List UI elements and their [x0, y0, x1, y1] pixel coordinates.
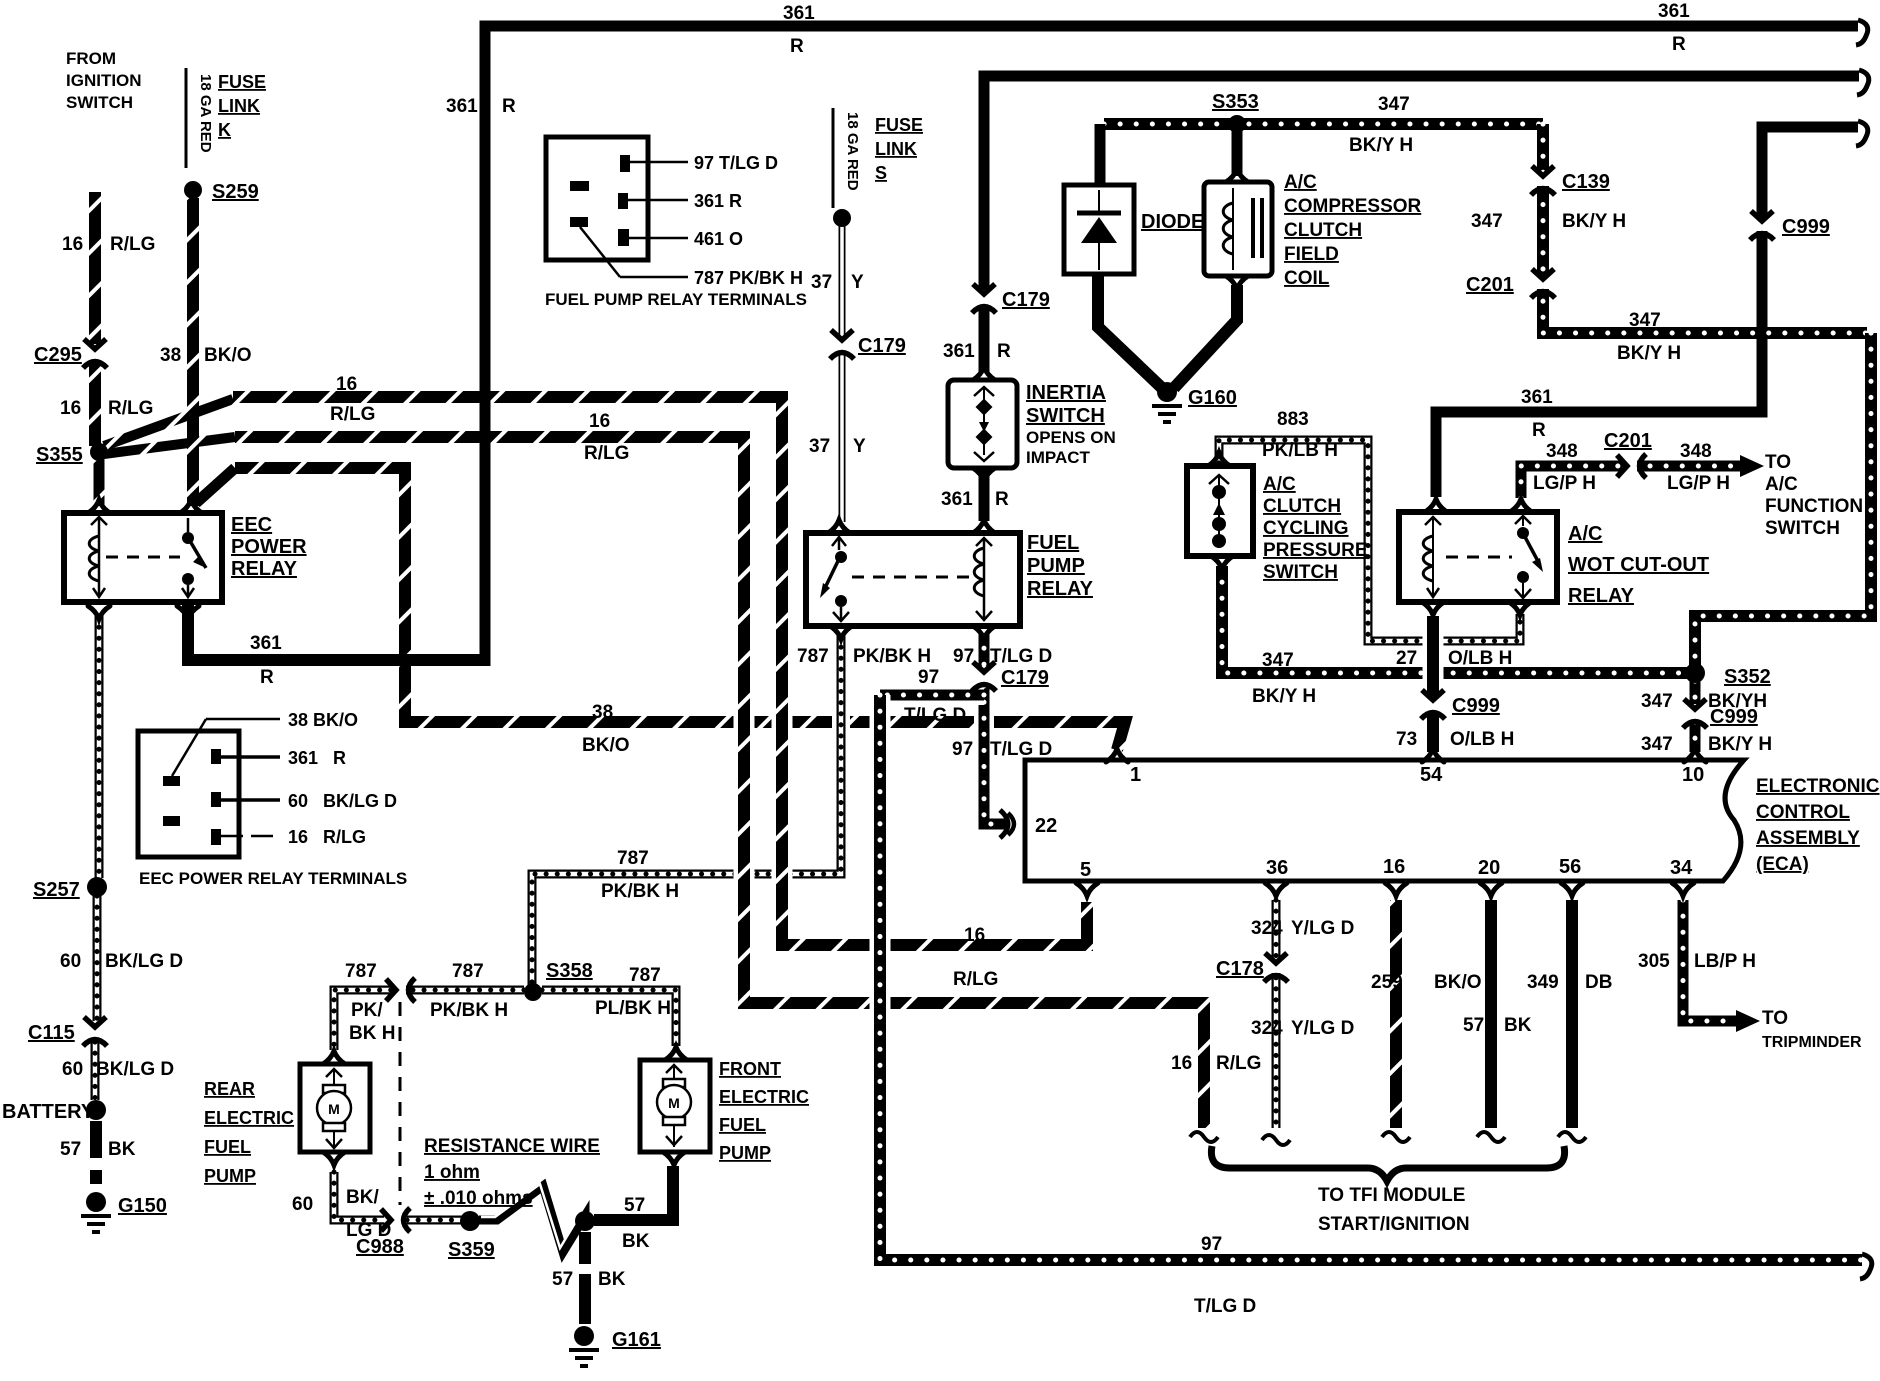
- label 787 s358 left: [345, 961, 377, 982]
- wire 361 R EEC relay pin down and right: [188, 604, 490, 660]
- EEC relay pin bottom-left chevron: [88, 606, 110, 619]
- svg-text:361: 361: [1521, 387, 1553, 408]
- svg-text:16: 16: [60, 398, 81, 419]
- label R eec: [260, 667, 274, 688]
- wire 883 PK/LB H pressure switch to WOT relay: [1219, 440, 1520, 641]
- label 347 c139: [1471, 211, 1503, 232]
- curl end of 361 R line 3: [1856, 121, 1868, 146]
- WOT relay switch: [1515, 516, 1543, 598]
- ECA pin 20 chevron: [1480, 883, 1502, 896]
- wire 57 BK junction down: [579, 1232, 591, 1264]
- label 361 eec: [250, 633, 282, 654]
- wire 60 BK/LG D C988 to S359: [407, 1216, 462, 1225]
- arrowhead to A/C function switch: [1740, 455, 1764, 477]
- svg-text:S259: S259: [212, 181, 259, 203]
- wire 305 LB/P H ECA pin 34 to tripminder: [1683, 900, 1736, 1021]
- svg-text:22: 22: [1035, 815, 1057, 837]
- label 57 front: [624, 1195, 645, 1216]
- EEC relay pin bottom-right chevron: [177, 606, 199, 619]
- label C295: [34, 344, 82, 366]
- svg-text:348: 348: [1546, 441, 1578, 462]
- svg-text:BK/YH: BK/YH: [1708, 691, 1767, 712]
- label FUEL PUMP RELAY: [1027, 532, 1094, 600]
- label 57 eca: [1463, 1015, 1484, 1036]
- ECA pin 10 chevron: [1684, 749, 1706, 762]
- WOT relay dashed link: [1446, 556, 1512, 559]
- svg-text:57: 57: [624, 1195, 645, 1216]
- ground G160: [1152, 382, 1237, 422]
- label 16 left2: [60, 398, 81, 419]
- label 1 ohm: [424, 1162, 480, 1183]
- svg-text:R: R: [260, 667, 274, 688]
- label 38: [160, 345, 181, 366]
- label 347 s347: [1262, 650, 1294, 671]
- terminal callout 461: [629, 237, 688, 240]
- label PK/BK H horiz: [601, 881, 679, 902]
- wire 361 R line 3 to A/C WOT cut-out relay: [1436, 127, 1858, 497]
- svg-text:18 GA RED: 18 GA RED: [844, 112, 861, 191]
- label 60 rear: [292, 1194, 313, 1215]
- label REAR ELECTRIC FUEL PUMP: [204, 1079, 294, 1186]
- svg-text:R: R: [1532, 420, 1546, 441]
- label 97 h: [918, 667, 939, 688]
- svg-text:1: 1: [1130, 764, 1141, 786]
- svg-text:IMPACT: IMPACT: [1026, 448, 1091, 467]
- svg-text:461 O: 461 O: [694, 229, 743, 249]
- wire 37 Y fuse link S to C179: [834, 226, 850, 336]
- svg-text:PK/: PK/: [351, 1000, 383, 1021]
- wire 16 R/LG from ignition switch: [89, 192, 101, 344]
- rear electric fuel pump box: [300, 1064, 370, 1152]
- label PK/BK H relay: [853, 646, 931, 667]
- wire diode to G160: [1098, 276, 1162, 388]
- connector C999 on 347: [1683, 699, 1707, 728]
- WOT relay bottom-left pin chevron: [1422, 602, 1444, 615]
- label R/LG eca5: [953, 969, 998, 990]
- label 97 below: [952, 739, 973, 760]
- svg-text:(ECA): (ECA): [1756, 854, 1809, 875]
- label ELECTRONIC CONTROL ASSEMBLY (ECA): [1756, 776, 1880, 875]
- svg-text:DIODE: DIODE: [1141, 211, 1204, 233]
- svg-text:CYCLING: CYCLING: [1263, 518, 1349, 539]
- wire 38 BK/O from EEC power relay to ECA pin 1: [235, 468, 1125, 750]
- connector C201 on 348: [1617, 454, 1646, 478]
- dashed line C988 alternate path: [399, 1002, 402, 1205]
- svg-text:305: 305: [1638, 951, 1670, 972]
- svg-text:C201: C201: [1466, 274, 1514, 296]
- label 18 GA RED left: [197, 74, 214, 153]
- resistance wire zigzag: [479, 1184, 585, 1252]
- EEC power relay terminals box: [138, 731, 239, 857]
- wire 16 R/LG from S355 via x782 to ECA pin 5: [233, 397, 1087, 945]
- svg-text:DB: DB: [1585, 972, 1612, 993]
- svg-text:BK H: BK H: [349, 1023, 395, 1044]
- svg-text:M: M: [668, 1095, 680, 1111]
- label BK/O mid: [582, 735, 630, 756]
- connector C988: [381, 1208, 410, 1232]
- label S257: [33, 879, 80, 901]
- svg-text:A/C: A/C: [1263, 474, 1296, 495]
- svg-text:R: R: [502, 96, 516, 117]
- ECA pin number 1: [1130, 764, 1141, 786]
- label 57 g161: [552, 1269, 573, 1290]
- curl end of 97 bottom line: [1860, 1254, 1872, 1279]
- A/C compressor bottom pin chevron: [1226, 276, 1248, 289]
- wire 347 BK/Y H below C999: [1690, 722, 1701, 752]
- terminal callout 97: [630, 161, 688, 164]
- label 37 upper: [811, 272, 832, 293]
- caption FUEL PUMP RELAY TERMINALS: [545, 290, 807, 309]
- svg-text:57: 57: [552, 1269, 573, 1290]
- svg-text:787: 787: [797, 646, 829, 667]
- svg-text:BK/Y H: BK/Y H: [1562, 211, 1626, 232]
- svg-text:ELECTRIC: ELECTRIC: [719, 1087, 809, 1107]
- connector C139: [1531, 166, 1555, 195]
- label 18 GA RED right: [844, 112, 861, 191]
- splice S259: [184, 181, 202, 199]
- svg-text:INERTIA: INERTIA: [1026, 382, 1106, 404]
- svg-text:FUEL: FUEL: [719, 1115, 766, 1135]
- label R vert1: [997, 341, 1011, 362]
- label R/LG left1: [110, 234, 155, 255]
- inertia switch top pin chevron: [973, 367, 995, 380]
- label T/LG D h: [904, 705, 966, 726]
- svg-text:REAR: REAR: [204, 1079, 255, 1099]
- svg-text:S355: S355: [36, 444, 83, 466]
- svg-text:97: 97: [953, 646, 974, 667]
- connector C999 on 27: [1421, 690, 1445, 719]
- svg-text:60: 60: [60, 951, 81, 972]
- label FUSE LINK K: [218, 72, 266, 140]
- splice S352: [1685, 663, 1705, 683]
- label A/C COMPRESSOR CLUTCH FIELD COIL: [1284, 172, 1422, 289]
- svg-text:R: R: [995, 489, 1009, 510]
- label 60 bklg 2: [62, 1059, 83, 1080]
- svg-text:PK/BK H: PK/BK H: [601, 881, 679, 902]
- wire 361 R vertical to top line 1: [485, 26, 1858, 666]
- relay fuel pump relay box: [806, 533, 1020, 626]
- front pump motor: [657, 1065, 691, 1147]
- ECA pin number 20: [1478, 857, 1500, 879]
- label BK/Y H s352b: [1708, 734, 1772, 755]
- wire 57 BK stub: [90, 1170, 102, 1184]
- label C179 on 97: [1001, 667, 1049, 689]
- label 324 b: [1251, 1018, 1283, 1039]
- wire 97 T/LG D fuel pump relay pin to C179: [979, 632, 990, 666]
- label 787 relay: [797, 646, 829, 667]
- label 97 bottom: [1201, 1234, 1222, 1255]
- break 324 TFI: [1262, 1135, 1290, 1145]
- svg-text:C179: C179: [1002, 289, 1050, 311]
- svg-text:R/LG: R/LG: [330, 404, 375, 425]
- svg-text:C179: C179: [858, 335, 906, 357]
- svg-text:RESISTANCE WIRE: RESISTANCE WIRE: [424, 1136, 600, 1157]
- wire 347 BK/YH S352 to C999 to ECA pin 10: [1690, 681, 1701, 704]
- svg-text:BK/: BK/: [346, 1187, 379, 1208]
- svg-text:60: 60: [292, 1194, 313, 1215]
- WOT relay bottom-right pin chevron: [1509, 602, 1531, 615]
- svg-text:G150: G150: [118, 1195, 167, 1217]
- label RESISTANCE WIRE: [424, 1136, 600, 1157]
- front pump top pin chevron: [665, 1047, 687, 1060]
- svg-text:SWITCH: SWITCH: [1026, 405, 1105, 427]
- fuel pump relay top-right pin chevron: [973, 520, 995, 533]
- svg-text:16: 16: [1171, 1053, 1192, 1074]
- svg-text:C201: C201: [1604, 430, 1652, 452]
- label S359: [448, 1239, 495, 1261]
- terminal callout 787: [580, 227, 688, 277]
- label BK g161: [598, 1269, 626, 1290]
- ECA pin number 10: [1682, 764, 1704, 786]
- pressure switch bottom pin chevron: [1211, 556, 1233, 569]
- ECA pin 54 chevron: [1422, 749, 1444, 762]
- label LG/P H r: [1667, 473, 1730, 494]
- brace TO TFI MODULE: [1211, 1146, 1564, 1181]
- ECA pin number 16: [1383, 856, 1405, 878]
- svg-text:97: 97: [918, 667, 939, 688]
- svg-text:LINK: LINK: [218, 96, 260, 116]
- label TO TFI MODULE: [1318, 1185, 1465, 1206]
- EEC terminal pins: [163, 749, 221, 845]
- wire 361 R top line 2 from x984: [984, 76, 1859, 290]
- splice S257: [87, 877, 107, 897]
- splice S358: [524, 983, 542, 1001]
- svg-text:START/IGNITION: START/IGNITION: [1318, 1214, 1470, 1235]
- svg-text:TO TFI MODULE: TO TFI MODULE: [1318, 1185, 1465, 1206]
- label 349: [1527, 972, 1559, 993]
- svg-text:S: S: [875, 163, 887, 183]
- diode symbol: [1077, 190, 1121, 270]
- wire 361 R C179 to inertia switch: [979, 306, 990, 372]
- ECA pin number 36: [1266, 857, 1288, 879]
- svg-text:BK/LG D: BK/LG D: [105, 951, 183, 972]
- svg-text:16: 16: [336, 374, 357, 395]
- label S353: [1212, 91, 1259, 113]
- svg-text:18 GA RED: 18 GA RED: [197, 74, 214, 153]
- label 361 relay: [941, 489, 973, 510]
- label S352: [1724, 666, 1771, 688]
- label T/LG D below: [990, 739, 1052, 760]
- svg-text:PK/BK H: PK/BK H: [853, 646, 931, 667]
- svg-text:38: 38: [592, 702, 613, 723]
- EEC terminal callout 60: [221, 798, 280, 802]
- svg-text:K: K: [218, 120, 231, 140]
- svg-text:38 BK/O: 38 BK/O: [288, 710, 358, 730]
- label R mid2: [502, 96, 516, 117]
- svg-text:R/LG: R/LG: [584, 443, 629, 464]
- label 361 R: [694, 191, 742, 211]
- splice fuse link S node: [833, 209, 851, 227]
- svg-text:COMPRESSOR: COMPRESSOR: [1284, 196, 1422, 217]
- svg-text:60: 60: [62, 1059, 83, 1080]
- label PK/: [351, 1000, 383, 1021]
- label 361 vert1: [943, 341, 975, 362]
- label FUSE LINK S: [875, 115, 923, 183]
- A/C compressor coil symbol: [1223, 188, 1262, 270]
- svg-text:347: 347: [1378, 94, 1410, 115]
- label BK front: [622, 1231, 650, 1252]
- wire 349 DB ECA pin 56 down: [1566, 900, 1578, 1128]
- label LB/P H: [1694, 951, 1756, 972]
- EEC terminal callout 38: [172, 719, 280, 776]
- svg-text:O/LB H: O/LB H: [1450, 729, 1514, 750]
- ECA pin 22 connector: [1000, 810, 1014, 838]
- wire 57 BK junction to front pump: [594, 1166, 673, 1220]
- fuel pump relay top-left pin chevron: [828, 520, 850, 533]
- svg-text:54: 54: [1420, 764, 1443, 786]
- ECA pin number 56: [1559, 856, 1581, 878]
- svg-text:FRONT: FRONT: [719, 1059, 781, 1079]
- label BK/O: [204, 345, 252, 366]
- label C179 on 361 R: [1002, 289, 1050, 311]
- label C115: [28, 1022, 75, 1044]
- wire 60 BK/LG D EEC relay to S257: [95, 616, 104, 878]
- label C999 top right: [1782, 216, 1830, 238]
- svg-text:34: 34: [1670, 857, 1693, 879]
- wire 97 T/LG D from C179 down to ECA pin 22: [984, 686, 1006, 824]
- svg-text:R/LG: R/LG: [953, 969, 998, 990]
- svg-text:LB/P H: LB/P H: [1694, 951, 1756, 972]
- svg-text:324: 324: [1251, 918, 1283, 939]
- svg-text:CONTROL: CONTROL: [1756, 802, 1850, 823]
- svg-text:16 R/LG: 16 R/LG: [288, 827, 366, 847]
- svg-text:G161: G161: [612, 1329, 661, 1351]
- svg-text:361: 361: [941, 489, 973, 510]
- svg-text:10: 10: [1682, 764, 1704, 786]
- svg-text:348: 348: [1680, 441, 1712, 462]
- svg-text:TO: TO: [1762, 1008, 1788, 1029]
- wire 347 BK/Y H right side down: [1695, 333, 1871, 666]
- label C201: [1466, 274, 1514, 296]
- label 259: [1371, 972, 1403, 993]
- label BK/YH s352a: [1708, 691, 1767, 712]
- svg-text:883: 883: [1277, 409, 1309, 430]
- caption EEC POWER RELAY TERMINALS: [139, 869, 407, 888]
- svg-text:BK/Y H: BK/Y H: [1708, 734, 1772, 755]
- pressure switch contacts: [1209, 475, 1229, 548]
- svg-text:EEC: EEC: [231, 514, 272, 536]
- A/C clutch cycling pressure switch box: [1187, 466, 1253, 556]
- svg-text:C295: C295: [34, 344, 82, 366]
- fuse link S underline: [832, 108, 835, 208]
- label 348 l: [1546, 441, 1578, 462]
- svg-text:A/C: A/C: [1765, 474, 1798, 495]
- svg-text:R/LG: R/LG: [1216, 1053, 1261, 1074]
- fuel pump relay coil: [974, 538, 992, 620]
- wire 37 Y C179 to fuel pump relay: [834, 352, 850, 522]
- label PK/LB H: [1262, 440, 1338, 461]
- label 60 bklg 1: [60, 951, 81, 972]
- svg-text:FIELD: FIELD: [1284, 244, 1339, 265]
- label T/LG D relay: [990, 646, 1052, 667]
- fuel pump relay terminals box: [546, 137, 648, 260]
- EEC relay pin top-left chevron: [88, 500, 110, 513]
- WOT relay top-left pin chevron: [1425, 499, 1447, 512]
- label 361 wot: [1521, 387, 1553, 408]
- curl end of 361 R top line: [1856, 20, 1868, 45]
- connector C115: [83, 1017, 107, 1046]
- svg-text:56: 56: [1559, 856, 1581, 878]
- rear pump bottom pin chevron: [323, 1152, 345, 1165]
- svg-text:LG D: LG D: [346, 1220, 391, 1241]
- label O/LB H 27: [1448, 648, 1512, 669]
- wire diode top to 347: [1095, 124, 1106, 184]
- svg-text:BK: BK: [622, 1231, 650, 1252]
- label C999 on 347: [1710, 706, 1758, 728]
- wire 787 PL/BK H S358 to front electric fuel pump: [542, 990, 676, 1046]
- svg-text:T/LG D: T/LG D: [1194, 1296, 1256, 1317]
- ground G150: [81, 1192, 167, 1232]
- wire 347 BK/Y H horizontal to S352: [1222, 566, 1688, 673]
- inertia switch contacts: [974, 387, 994, 461]
- break 259 TFI: [1382, 1132, 1410, 1142]
- svg-text:PUMP: PUMP: [1027, 555, 1085, 577]
- svg-text:FUEL: FUEL: [1027, 532, 1079, 554]
- svg-text:27: 27: [1396, 648, 1417, 669]
- svg-text:PUMP: PUMP: [204, 1166, 256, 1186]
- label 787 s358 right: [629, 965, 661, 986]
- wire 787 PK/BK H from fuel pump relay to S358: [532, 636, 841, 986]
- svg-text:97 T/LG D: 97 T/LG D: [694, 153, 778, 173]
- label 787 PK/BK H: [694, 268, 803, 288]
- svg-text:787: 787: [629, 965, 661, 986]
- svg-text:C115: C115: [28, 1022, 75, 1044]
- wire 60 BK/LG D rear pump to C988 to S359: [334, 1172, 384, 1220]
- connector C295: [83, 339, 107, 368]
- wire 38 BK/O elbow into EEC relay switch pin: [196, 468, 235, 503]
- svg-text:LINK: LINK: [875, 139, 917, 159]
- wire 97 T/LG D long run to bottom right: [880, 695, 1862, 1260]
- svg-text:EEC POWER RELAY TERMINALS: EEC POWER RELAY TERMINALS: [139, 869, 407, 888]
- wire 347 BK/Y H vertical C139 C201: [1543, 124, 1867, 333]
- wire 60 BK/LG D C115 to battery: [91, 1042, 100, 1100]
- svg-text:TRIPMINDER: TRIPMINDER: [1762, 1034, 1862, 1051]
- wire 97 T/LG D branch to x880: [880, 685, 984, 705]
- label START/IGNITION: [1318, 1214, 1470, 1235]
- label R wot: [1532, 420, 1546, 441]
- wire 16 R/LG S355 fan to line B: [104, 399, 233, 446]
- svg-text:ASSEMBLY: ASSEMBLY: [1756, 828, 1860, 849]
- svg-text:97: 97: [952, 739, 973, 760]
- connector C999 top right: [1750, 211, 1774, 240]
- inertia switch bottom pin chevron: [973, 468, 995, 481]
- fuel pump relay bottom-left pin chevron: [830, 626, 852, 639]
- wire 57 BK battery to G150: [90, 1121, 102, 1158]
- ECA pin number 22: [1035, 815, 1057, 837]
- label 883: [1277, 409, 1309, 430]
- wire 16 R/LG S355 to EEC relay coil pin: [94, 458, 105, 506]
- WOT relay coil: [1423, 517, 1441, 597]
- break 16 R/LG TFI: [1190, 1132, 1218, 1142]
- label TO trip: [1762, 1008, 1788, 1029]
- svg-text:A/C: A/C: [1568, 523, 1602, 545]
- svg-text:C179: C179: [1001, 667, 1049, 689]
- svg-text:CLUTCH: CLUTCH: [1284, 220, 1362, 241]
- diode box: [1064, 185, 1134, 274]
- svg-text:BK/Y H: BK/Y H: [1252, 686, 1316, 707]
- svg-text:CLUTCH: CLUTCH: [1263, 496, 1341, 517]
- relay A/C WOT cut-out relay box: [1399, 512, 1557, 602]
- label DIODE: [1141, 211, 1204, 233]
- label PK/BK H s358: [430, 1000, 508, 1021]
- svg-text:BK/Y H: BK/Y H: [1617, 343, 1681, 364]
- ECA pin 34 chevron: [1672, 883, 1694, 896]
- label C178: [1216, 958, 1264, 980]
- svg-text:S358: S358: [546, 960, 593, 982]
- label BK/Y H s347: [1252, 686, 1316, 707]
- label PL/BK H: [595, 998, 671, 1019]
- svg-text:38: 38: [160, 345, 181, 366]
